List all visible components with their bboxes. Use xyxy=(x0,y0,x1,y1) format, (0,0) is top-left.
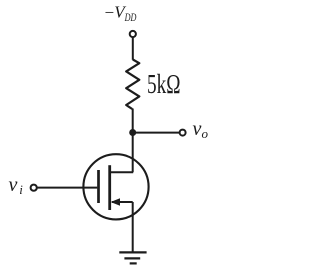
transistor Q1 body circle xyxy=(83,154,148,219)
gate bar xyxy=(97,170,100,203)
svg-text:i: i xyxy=(19,182,23,197)
wire output node to drain xyxy=(132,133,134,173)
wire source to ground xyxy=(132,202,134,252)
ground symbol xyxy=(119,252,146,263)
wire VDD terminal to resistor xyxy=(132,37,134,60)
svg-text:5kΩ: 5kΩ xyxy=(147,69,181,99)
svg-text:o: o xyxy=(202,126,209,141)
node output junction dot xyxy=(129,129,136,136)
terminal vi xyxy=(31,185,37,191)
source internal wire xyxy=(112,201,133,203)
gate wire from vi terminal xyxy=(37,187,97,189)
terminal VDD xyxy=(130,31,136,37)
arrowhead on source (points left) xyxy=(111,198,120,206)
svg-text:DD: DD xyxy=(124,12,137,24)
resistor R 5kOhm xyxy=(126,60,139,110)
svg-text:v: v xyxy=(9,174,18,196)
wire resistor to output node xyxy=(132,109,134,133)
wire output node to vo terminal xyxy=(133,132,180,134)
terminal vo xyxy=(180,130,186,136)
svg-text:v: v xyxy=(193,118,202,140)
drain internal wire xyxy=(111,171,134,173)
channel bar xyxy=(108,165,111,210)
